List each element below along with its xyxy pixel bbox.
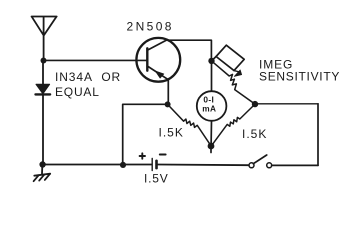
- switch S1: [249, 155, 272, 168]
- potentiometer R3 1MEG (box with wiper arrow): [212, 45, 256, 104]
- battery B1: [140, 153, 166, 170]
- label 1N34A OR EQUAL: [55, 70, 121, 99]
- svg-text:I.5V: I.5V: [144, 172, 169, 185]
- transistor Q1 2N508: [136, 38, 180, 104]
- bridge bottom node dot with stub: [208, 143, 215, 153]
- svg-text:I.5K: I.5K: [242, 127, 267, 141]
- wire meter to bridge bottom node: [210, 121, 212, 146]
- svg-text:EQUAL: EQUAL: [55, 85, 100, 99]
- bottom bus wire (switch to right corner): [272, 164, 318, 166]
- wire collector to top corner and down to meter node: [167, 40, 211, 58]
- svg-text:2N508: 2N508: [127, 20, 174, 34]
- wire node to meter: [211, 61, 213, 91]
- resistor R2 1.5K (right): [211, 104, 255, 146]
- wire emitter branch: down left side: [123, 104, 165, 165]
- bottom bus wire (battery to switch): [158, 164, 249, 167]
- node A (antenna/diode/base junction): [41, 58, 47, 64]
- resistor R1 1.5K (left): [168, 104, 211, 145]
- bottom bus wire (ground to battery): [43, 164, 152, 166]
- wire right side vertical: [317, 104, 319, 166]
- diode D1 1N34A: [36, 63, 51, 164]
- label 1MEG SENSITIVITY: [259, 58, 340, 84]
- antenna: [32, 17, 57, 61]
- ground node dot: [39, 161, 45, 167]
- svg-text:SENSITIVITY: SENSITIVITY: [259, 69, 340, 83]
- ground: [34, 166, 51, 181]
- junction dot (left branch to bus): [120, 162, 126, 168]
- wire right top horizontal to bridge node: [255, 103, 318, 105]
- meter/pot node dot: [208, 58, 214, 64]
- emitter node dot: [165, 101, 171, 107]
- meter M1 0-1 mA: [197, 91, 227, 121]
- svg-text:I.5K: I.5K: [159, 125, 184, 139]
- bridge right node dot: [252, 101, 258, 107]
- svg-text:mA: mA: [202, 104, 216, 114]
- wire antenna/diode node to transistor base: [44, 59, 148, 61]
- svg-text:IN34A OR: IN34A OR: [55, 70, 121, 84]
